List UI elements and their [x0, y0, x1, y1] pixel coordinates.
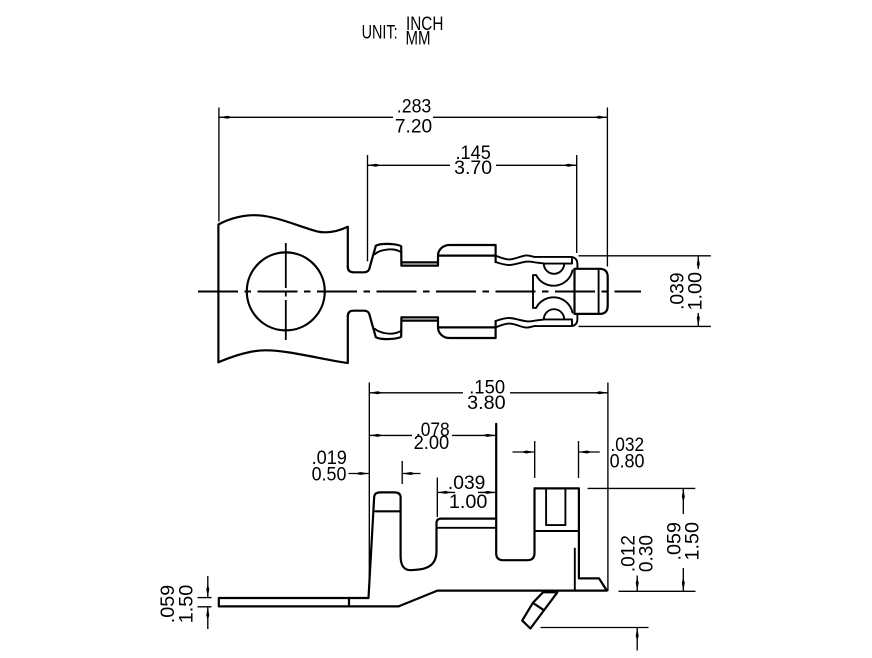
- dimension .019/0.50: [349, 461, 421, 484]
- contact chords and step: [544, 257, 572, 326]
- contact big arc lower: [536, 297, 572, 312]
- wing1 inner edge line: [376, 510, 401, 512]
- dimension .150/3.80: [369, 383, 608, 592]
- tip inner chamfer line: [598, 269, 600, 314]
- dimension .283/7.20: [219, 108, 608, 267]
- svg-text:.283: .283: [397, 97, 432, 118]
- strip divider: [348, 598, 350, 606]
- svg-text:7.20: 7.20: [395, 116, 432, 137]
- wing2 edge: [496, 424, 534, 560]
- wire crimp bump lower contour: [376, 317, 496, 339]
- wire crimp bump upper contour: [376, 244, 496, 266]
- main horizontal centerline: [198, 291, 641, 293]
- svg-text:0.80: 0.80: [610, 452, 645, 473]
- box inner rect: [546, 488, 565, 525]
- dimension .059/1.50 (side view left): [198, 576, 212, 629]
- svg-text:1.50: 1.50: [683, 522, 704, 561]
- unit note: [362, 14, 444, 49]
- svg-text:1.00: 1.00: [686, 272, 707, 311]
- svg-text:2.00: 2.00: [414, 433, 450, 454]
- svg-text:MM: MM: [406, 28, 431, 49]
- wire crimp bump inner arc lower: [375, 329, 402, 334]
- s-curve to contact lower: [496, 318, 544, 328]
- ledge bottom line: [437, 527, 497, 529]
- carrier strip side: [219, 598, 399, 606]
- body outline: [369, 492, 496, 598]
- dimension .032/0.80: [513, 441, 600, 478]
- contact small semicircle upper: [544, 264, 564, 274]
- svg-text:3.80: 3.80: [467, 393, 506, 414]
- s-curve to contact upper: [496, 255, 544, 265]
- dimension .059/1.50 (side view right): [682, 488, 684, 591]
- contact box outer: [534, 257, 577, 326]
- svg-text:1.50: 1.50: [176, 585, 197, 624]
- right wall inner line: [574, 549, 576, 591]
- contact C bracket: [533, 275, 536, 308]
- dimension .039/1.00 (top view, right): [579, 256, 711, 327]
- neck notch lower: [348, 311, 376, 337]
- box bottom line: [535, 530, 579, 532]
- vertical centerline of hole: [285, 243, 287, 340]
- contact big arc upper: [536, 270, 572, 285]
- svg-text:.039: .039: [448, 473, 486, 494]
- svg-text:0.50: 0.50: [312, 464, 347, 485]
- svg-text:1.00: 1.00: [449, 492, 488, 513]
- dimension .078/2.00: [369, 434, 496, 436]
- carrier strip (top view, wavy break edges): [218, 215, 347, 363]
- contact small semicircle lower: [544, 309, 564, 319]
- svg-text:UNIT:: UNIT:: [362, 23, 398, 44]
- dimension .145/3.70: [367, 155, 576, 261]
- tab tip extension line: [541, 627, 649, 629]
- tip pill: [575, 269, 608, 314]
- box top extension line: [588, 487, 696, 489]
- svg-text:0.30: 0.30: [637, 535, 658, 572]
- box and right wall: [399, 488, 607, 606]
- wire crimp bump inner arc upper: [375, 249, 402, 254]
- neck notch upper: [348, 246, 376, 272]
- dimension .012/0.30: [636, 576, 638, 651]
- svg-text:3.70: 3.70: [454, 158, 492, 179]
- body bottom extension line: [619, 590, 696, 592]
- circle hole in carrier: [247, 252, 325, 330]
- locking lance tab: [522, 592, 557, 628]
- dimension .039/1.00 (side view): [437, 478, 496, 518]
